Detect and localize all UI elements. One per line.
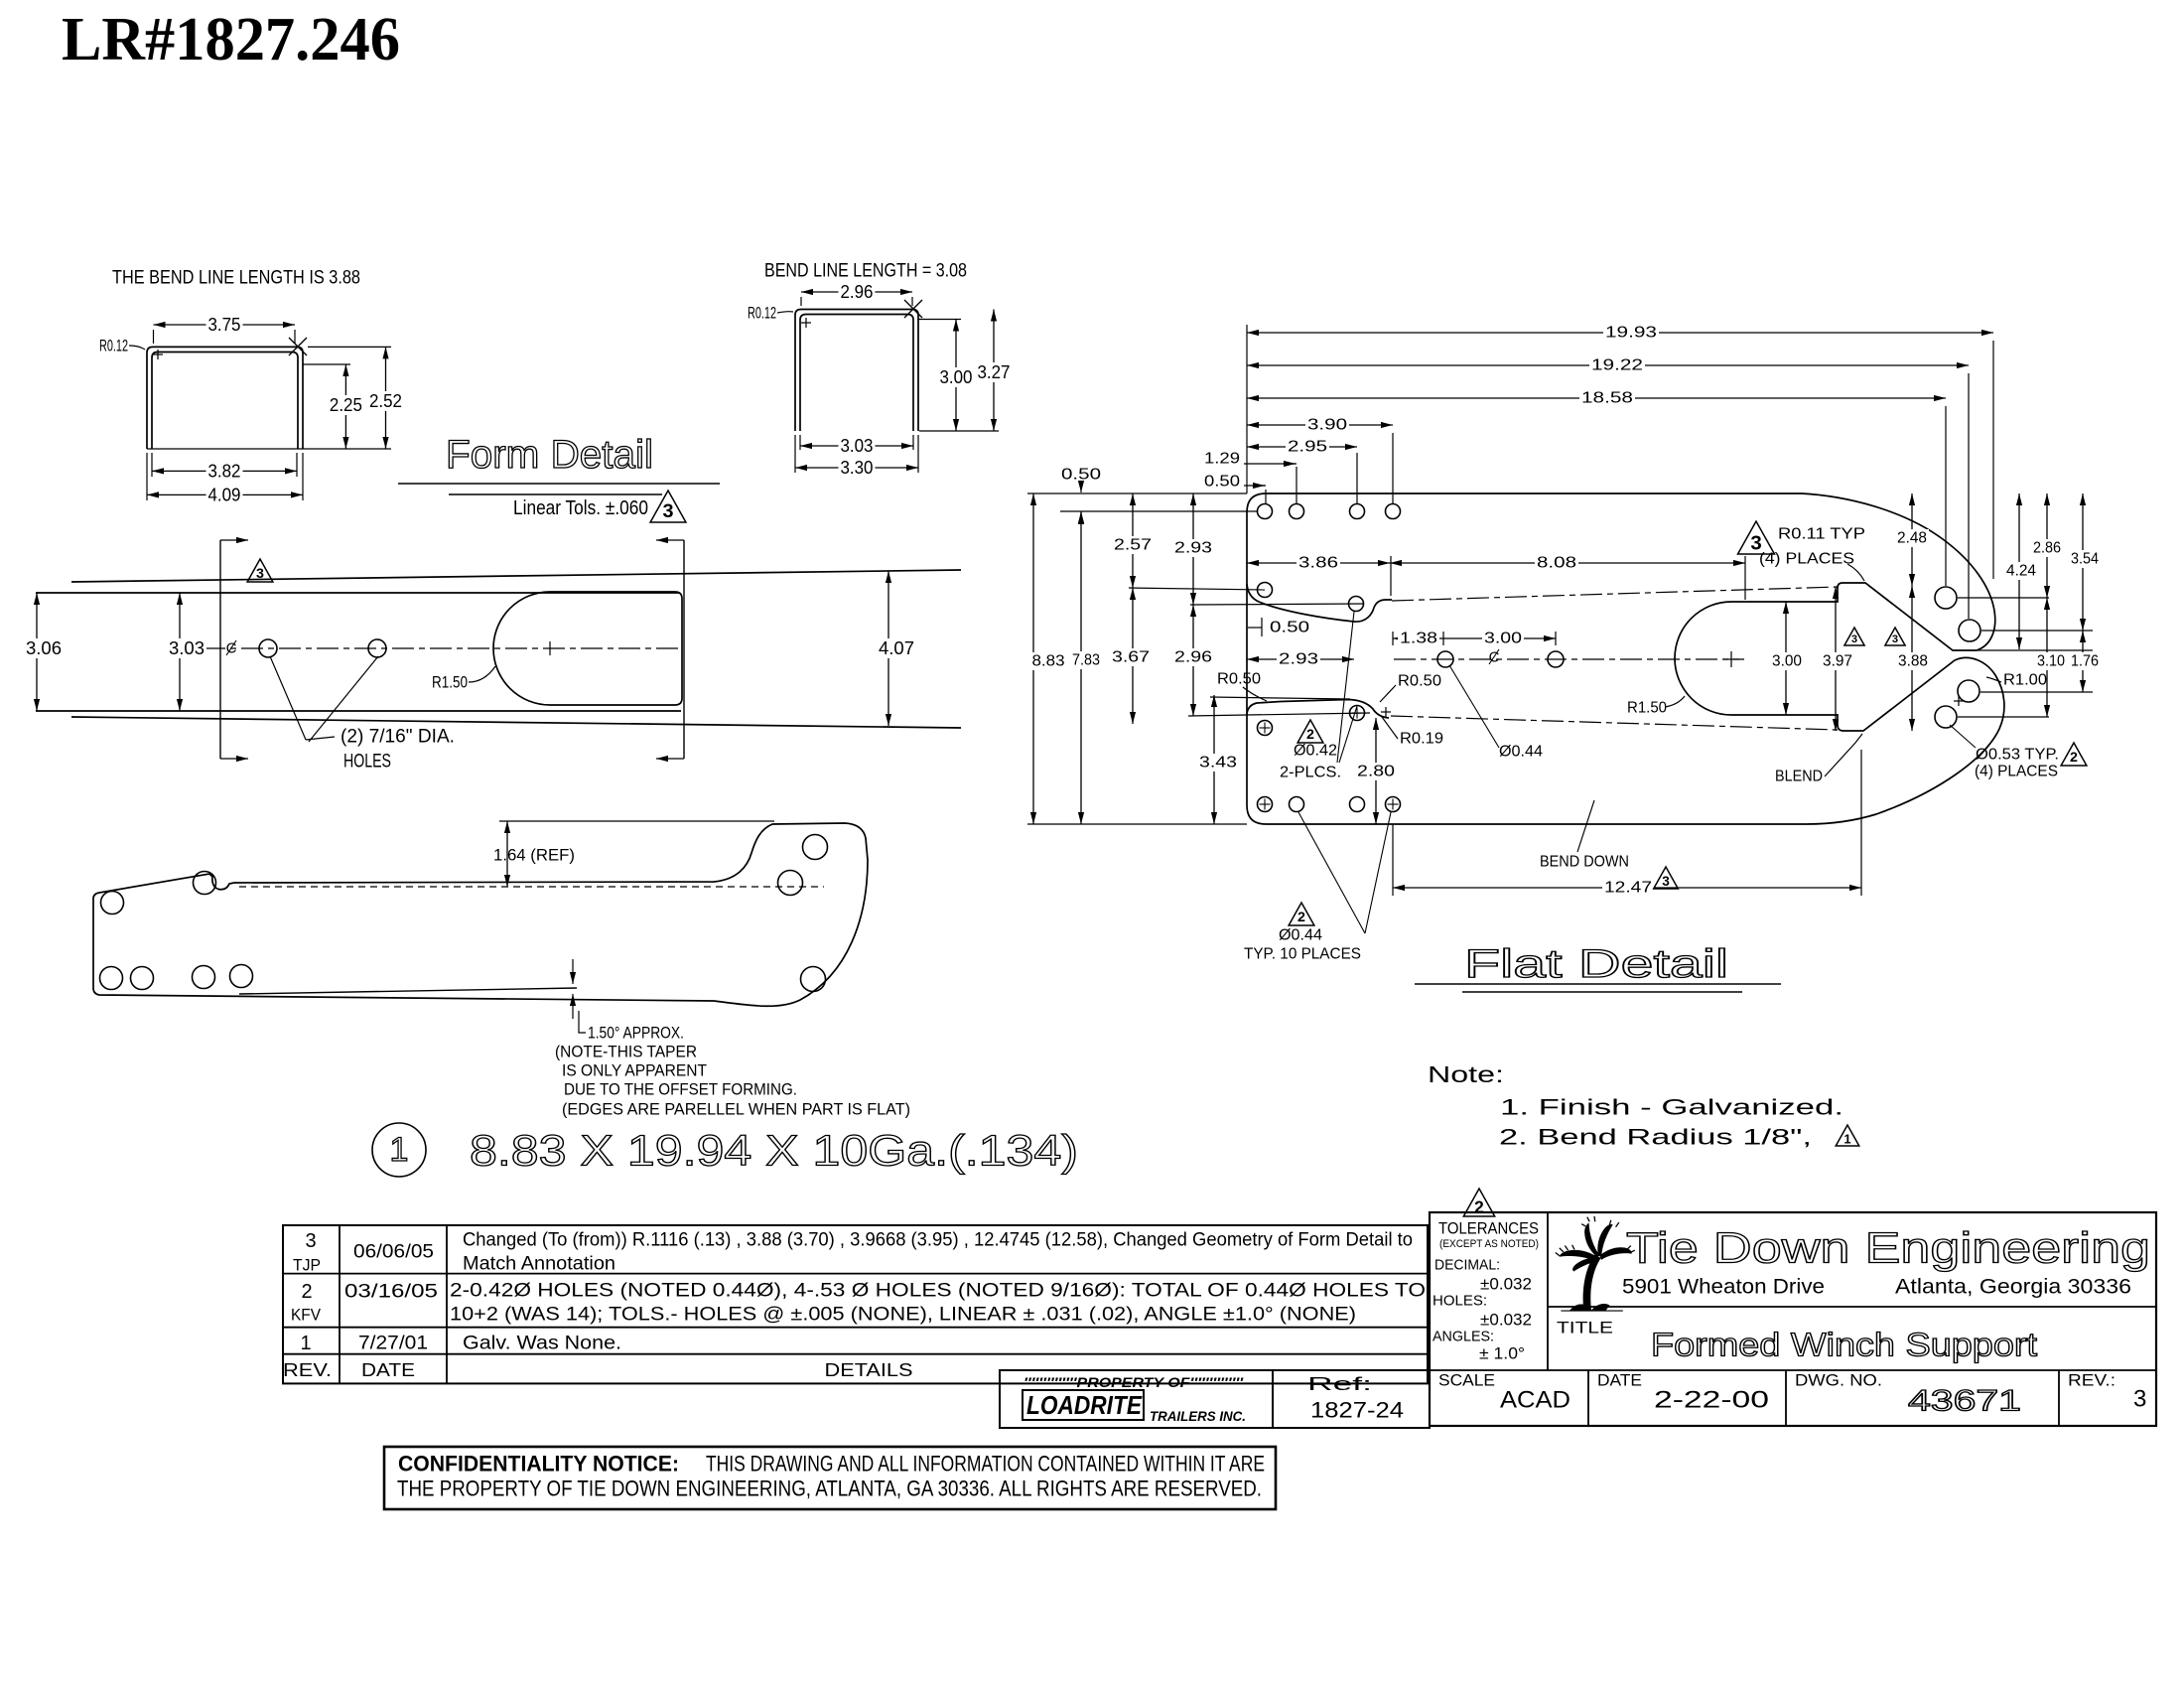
svg-text:Linear Tols. ±.060: Linear Tols. ±.060 <box>513 497 648 519</box>
svg-text:2-0.42Ø HOLES (NOTED 0.44Ø), 4: 2-0.42Ø HOLES (NOTED 0.44Ø), 4-.53 Ø HOL… <box>450 1281 1426 1302</box>
svg-text:2.93: 2.93 <box>1174 540 1212 557</box>
svg-text:DWG. NO.: DWG. NO. <box>1795 1371 1882 1390</box>
svg-text:18.58: 18.58 <box>1581 390 1633 407</box>
svg-text:Ø0.53 TYP.: Ø0.53 TYP. <box>1976 747 2059 764</box>
svg-text:SCALE: SCALE <box>1438 1371 1495 1390</box>
svg-text:R0.19: R0.19 <box>1400 731 1443 748</box>
svg-text:3.82: 3.82 <box>208 461 241 481</box>
svg-text:TRAILERS INC.: TRAILERS INC. <box>1150 1408 1246 1424</box>
svg-text:BEND DOWN: BEND DOWN <box>1540 854 1629 871</box>
svg-text:(2) 7/16" DIA.: (2) 7/16" DIA. <box>341 727 455 748</box>
svg-text:3: 3 <box>2133 1386 2146 1413</box>
svg-text:0.50: 0.50 <box>1061 467 1101 484</box>
svg-text:3.06: 3.06 <box>26 638 62 658</box>
svg-text:2.96: 2.96 <box>841 282 874 302</box>
svg-text:2: 2 <box>1297 910 1305 925</box>
svg-text:Ref:: Ref: <box>1307 1374 1372 1394</box>
svg-text:LOADRITE: LOADRITE <box>1026 1390 1143 1420</box>
svg-text:3.54: 3.54 <box>2071 551 2099 568</box>
svg-text:2.80: 2.80 <box>1357 764 1395 780</box>
svg-text:2.25: 2.25 <box>330 395 362 415</box>
svg-text:2.48: 2.48 <box>1897 530 1927 547</box>
svg-text:±0.032: ±0.032 <box>1480 1275 1532 1294</box>
svg-text:Note:: Note: <box>1428 1061 1504 1087</box>
svg-text:3.03: 3.03 <box>169 638 205 658</box>
svg-text:4.07: 4.07 <box>879 638 914 658</box>
svg-text:3.67: 3.67 <box>1112 649 1150 666</box>
svg-text:2-PLCS.: 2-PLCS. <box>1280 765 1341 781</box>
svg-text:8.08: 8.08 <box>1537 555 1576 572</box>
svg-text:Ø0.42: Ø0.42 <box>1294 743 1337 760</box>
svg-text:(4) PLACES: (4) PLACES <box>1759 551 1854 568</box>
svg-text:THE BEND LINE LENGTH IS 3.88: THE BEND LINE LENGTH IS 3.88 <box>112 268 360 289</box>
svg-text:Match Annotation: Match Annotation <box>463 1254 615 1275</box>
svg-text:THIS DRAWING AND ALL INFORMATI: THIS DRAWING AND ALL INFORMATION CONTAIN… <box>706 1452 1265 1477</box>
svg-text:DECIMAL:: DECIMAL: <box>1434 1257 1500 1274</box>
svg-text:(EDGES ARE PARELLEL WHEN PART: (EDGES ARE PARELLEL WHEN PART IS FLAT) <box>562 1100 910 1119</box>
svg-text:REV.:: REV.: <box>2068 1371 2116 1390</box>
svg-text:TJP: TJP <box>293 1256 321 1275</box>
svg-text:3.75: 3.75 <box>208 315 241 335</box>
svg-text:LR#1827.246: LR#1827.246 <box>62 6 400 73</box>
svg-text:3: 3 <box>305 1230 316 1252</box>
svg-text:1: 1 <box>1843 1131 1850 1146</box>
svg-text:12.47: 12.47 <box>1604 880 1652 897</box>
svg-text:3.00: 3.00 <box>1772 653 1802 670</box>
svg-text:3: 3 <box>1851 633 1857 645</box>
svg-text:Atlanta, Georgia 30336: Atlanta, Georgia 30336 <box>1895 1276 2131 1299</box>
svg-text:4.09: 4.09 <box>208 485 241 504</box>
svg-text:R0.50: R0.50 <box>1217 671 1261 688</box>
svg-text:3.86: 3.86 <box>1298 555 1338 572</box>
svg-text:3.97: 3.97 <box>1823 653 1852 670</box>
svg-text:1827-24: 1827-24 <box>1310 1398 1404 1423</box>
svg-text:Flat Detail: Flat Detail <box>1464 942 1728 986</box>
svg-text:4.24: 4.24 <box>2006 563 2036 580</box>
svg-text:2.95: 2.95 <box>1288 439 1327 456</box>
svg-text:2.52: 2.52 <box>369 391 402 411</box>
svg-text:43671: 43671 <box>1908 1385 2021 1418</box>
svg-text:DATE: DATE <box>1597 1371 1642 1390</box>
svg-text:Ø0.44: Ø0.44 <box>1499 744 1543 761</box>
svg-text:3.30: 3.30 <box>841 458 874 478</box>
svg-text:″″″″″″″PROPERTY OF″″″″″″″: ″″″″″″″PROPERTY OF″″″″″″″ <box>1024 1374 1244 1390</box>
svg-text:1.50° APPROX.: 1.50° APPROX. <box>588 1024 684 1043</box>
svg-text:8.83 X 19.94 X 10Ga.(.134): 8.83 X 19.94 X 10Ga.(.134) <box>470 1127 1078 1176</box>
svg-text:3.88: 3.88 <box>1898 653 1928 670</box>
svg-text:R0.50: R0.50 <box>1398 673 1441 690</box>
svg-text:2: 2 <box>1306 727 1314 743</box>
svg-text:3.00: 3.00 <box>1484 631 1522 647</box>
svg-text:3: 3 <box>1892 633 1898 645</box>
svg-text:BLEND: BLEND <box>1775 769 1823 785</box>
svg-text:0.50: 0.50 <box>1204 474 1240 491</box>
svg-text:R0.12: R0.12 <box>748 304 776 323</box>
svg-text:Ø0.44: Ø0.44 <box>1279 927 1322 944</box>
svg-text:2.96: 2.96 <box>1174 649 1212 666</box>
svg-text:2.93: 2.93 <box>1279 651 1318 668</box>
svg-text:10+2 (WAS 14); TOLS.- HOLES @: 10+2 (WAS 14); TOLS.- HOLES @ ±.005 (NON… <box>450 1305 1356 1326</box>
svg-text:REV.: REV. <box>283 1360 332 1380</box>
svg-text:ANGLES:: ANGLES: <box>1433 1329 1494 1345</box>
svg-text:(NOTE-THIS TAPER: (NOTE-THIS TAPER <box>555 1043 697 1061</box>
svg-text:Formed Winch Support: Formed Winch Support <box>1651 1327 2037 1363</box>
svg-text:R1.50: R1.50 <box>432 673 468 692</box>
svg-text:Changed (To (from)) R.1116 (.1: Changed (To (from)) R.1116 (.13) , 3.88 … <box>463 1230 1413 1251</box>
svg-text:(EXCEPT AS NOTED): (EXCEPT AS NOTED) <box>1439 1238 1539 1250</box>
svg-text:R0.12: R0.12 <box>99 337 128 355</box>
svg-text:8.83: 8.83 <box>1032 653 1065 670</box>
svg-text:3.00: 3.00 <box>940 367 973 387</box>
svg-text:1.38: 1.38 <box>1400 631 1437 647</box>
svg-text:03/16/05: 03/16/05 <box>344 1282 438 1303</box>
svg-text:7.83: 7.83 <box>1072 652 1100 669</box>
svg-text:3.03: 3.03 <box>841 436 874 456</box>
svg-text:2. Bend Radius 1/8",: 2. Bend Radius 1/8", <box>1499 1125 1812 1150</box>
svg-text:IS ONLY APPARENT: IS ONLY APPARENT <box>562 1061 707 1080</box>
svg-text:2: 2 <box>1474 1196 1484 1216</box>
svg-text:R1.50: R1.50 <box>1627 700 1667 717</box>
svg-text:THE PROPERTY OF TIE DOWN ENGIN: THE PROPERTY OF TIE DOWN ENGINEERING, AT… <box>397 1477 1262 1501</box>
svg-text:2.86: 2.86 <box>2033 540 2061 557</box>
svg-text:TYP. 10 PLACES: TYP. 10 PLACES <box>1244 946 1361 963</box>
svg-text:7/27/01: 7/27/01 <box>358 1334 428 1354</box>
svg-text:Galv. Was None.: Galv. Was None. <box>463 1334 621 1354</box>
svg-text:CONFIDENTIALITY NOTICE:: CONFIDENTIALITY NOTICE: <box>398 1452 679 1477</box>
svg-text:HOLES:: HOLES: <box>1433 1293 1487 1310</box>
svg-text:1. Finish - Galvanized.: 1. Finish - Galvanized. <box>1500 1095 1843 1120</box>
svg-text:3: 3 <box>662 500 673 522</box>
svg-text:3.27: 3.27 <box>978 362 1011 382</box>
svg-text:1.29: 1.29 <box>1204 451 1240 468</box>
svg-text:R0.11 TYP: R0.11 TYP <box>1778 526 1865 543</box>
svg-text:Tie Down Engineering: Tie Down Engineering <box>1626 1224 2150 1273</box>
svg-text:HOLES: HOLES <box>343 752 391 773</box>
svg-text:3.43: 3.43 <box>1199 755 1237 772</box>
svg-text:(4) PLACES: (4) PLACES <box>1975 764 2058 780</box>
svg-text:± 1.0°: ± 1.0° <box>1479 1344 1525 1363</box>
svg-text:ACAD: ACAD <box>1500 1387 1570 1414</box>
svg-text:3.10: 3.10 <box>2037 653 2065 670</box>
svg-text:DATE: DATE <box>361 1360 415 1380</box>
svg-text:06/06/05: 06/06/05 <box>353 1242 434 1263</box>
svg-text:DUE TO THE OFFSET FORMING.: DUE TO THE OFFSET FORMING. <box>564 1080 797 1099</box>
svg-text:0.50: 0.50 <box>1270 620 1309 636</box>
svg-text:TITLE: TITLE <box>1557 1319 1613 1337</box>
svg-text:5901 Wheaton Drive: 5901 Wheaton Drive <box>1622 1276 1825 1299</box>
svg-text:TOLERANCES: TOLERANCES <box>1438 1219 1539 1238</box>
svg-text:19.22: 19.22 <box>1591 357 1643 374</box>
svg-text:2: 2 <box>301 1281 312 1303</box>
svg-text:BEND LINE LENGTH = 3.08: BEND LINE LENGTH = 3.08 <box>764 261 967 282</box>
svg-text:19.93: 19.93 <box>1605 325 1657 342</box>
svg-text:3: 3 <box>1662 874 1670 889</box>
svg-text:1.76: 1.76 <box>2071 653 2099 670</box>
svg-text:2.57: 2.57 <box>1114 537 1152 554</box>
svg-text:KFV: KFV <box>291 1306 322 1325</box>
svg-text:3.90: 3.90 <box>1307 417 1347 434</box>
svg-text:R1.00: R1.00 <box>2003 672 2047 689</box>
svg-text:2: 2 <box>2070 750 2078 766</box>
svg-text:2-22-00: 2-22-00 <box>1654 1387 1769 1414</box>
svg-text:±0.032: ±0.032 <box>1480 1311 1532 1330</box>
svg-text:1: 1 <box>390 1131 409 1169</box>
svg-text:1.64 (REF): 1.64 (REF) <box>493 846 575 865</box>
svg-text:Form Detail: Form Detail <box>446 433 653 477</box>
svg-text:DETAILS: DETAILS <box>825 1360 913 1380</box>
svg-text:1: 1 <box>300 1333 311 1354</box>
